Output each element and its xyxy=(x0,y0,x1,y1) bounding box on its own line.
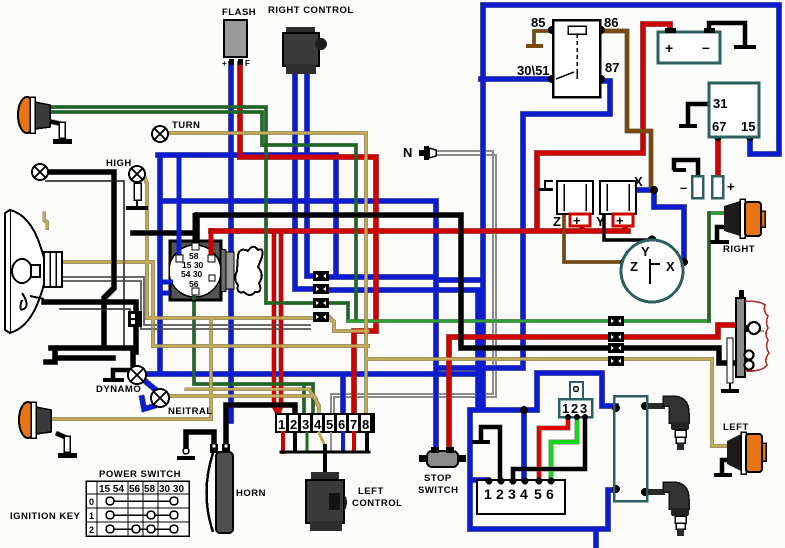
node regulator 15 xyxy=(746,133,754,141)
svg-text:2: 2 xyxy=(290,417,297,432)
svg-text:56: 56 xyxy=(129,484,141,495)
wire gray N line xyxy=(331,151,493,421)
wire blue horiz y201 xyxy=(160,199,436,204)
condenser Y xyxy=(596,181,636,229)
wire black main y215 xyxy=(197,215,737,363)
svg-text:85: 85 xyxy=(531,15,545,30)
svg-text:2: 2 xyxy=(496,486,504,502)
svg-text:N: N xyxy=(403,145,412,160)
left control switch xyxy=(306,472,402,531)
wire black ind1 xyxy=(46,172,114,348)
svg-text:3: 3 xyxy=(580,401,587,416)
horn xyxy=(177,444,266,533)
node N connector xyxy=(403,145,436,160)
wire red battery plus xyxy=(537,24,670,231)
node relay 86 xyxy=(597,26,605,34)
wire khaki turn line xyxy=(168,133,366,421)
node alternator X terminal xyxy=(680,258,688,266)
svg-text:15 54: 15 54 xyxy=(99,484,124,495)
wire green connector3 east xyxy=(329,303,348,321)
wire red stop switch xyxy=(447,337,452,451)
svg-text:8: 8 xyxy=(362,417,369,432)
svg-text:+: + xyxy=(616,213,624,228)
svg-text:SWITCH: SWITCH xyxy=(418,485,458,496)
svg-text:+: + xyxy=(665,40,673,56)
ignition switch xyxy=(160,157,263,300)
wire blue flash terminal xyxy=(229,64,234,421)
svg-text:7: 7 xyxy=(350,417,357,432)
svg-text:LEFT: LEFT xyxy=(358,486,384,497)
node X junction xyxy=(650,186,658,194)
svg-text:2: 2 xyxy=(571,401,578,416)
svg-text:Z: Z xyxy=(553,214,561,229)
wire black dynamo feed xyxy=(131,348,136,364)
wire black regulator31 ground xyxy=(688,104,709,124)
svg-text:3: 3 xyxy=(508,486,516,502)
wire green G1 lamp to connector3 xyxy=(48,107,313,303)
wire thin pair headlamp xyxy=(62,277,310,325)
ground relay85 xyxy=(526,44,543,48)
wire red y231 right to condensers xyxy=(537,229,628,234)
wire blue stub to pin6 xyxy=(341,374,346,420)
battery xyxy=(658,28,720,63)
wire khaki neutral second xyxy=(186,389,316,399)
indicator NEUTRAL xyxy=(151,389,213,417)
node relay 85 xyxy=(548,26,556,34)
connector pair 4 (khaki) xyxy=(313,312,329,322)
wire black horn left ground loop xyxy=(186,432,214,450)
svg-text:TURN: TURN xyxy=(172,120,200,131)
svg-text:HORN: HORN xyxy=(236,488,266,499)
wire black battery minus ground xyxy=(709,23,745,45)
spark plug 1 xyxy=(648,396,689,450)
wire khaki socket to H346 xyxy=(62,262,153,346)
wire red condenser Y plus xyxy=(623,213,628,231)
wire blue relay 87 to connector2 xyxy=(436,81,610,368)
wire khaki connector4 east xyxy=(329,317,368,331)
node coil frame bottom-left xyxy=(612,485,620,493)
rear connector 3 black xyxy=(608,343,624,353)
wire red flash F to x376 xyxy=(240,64,376,420)
wire khaki neutral to pin4 xyxy=(169,396,319,421)
wire black coil3 to 6pin3 xyxy=(513,418,585,479)
svg-text:86: 86 xyxy=(604,15,618,30)
ground regulator31 xyxy=(679,124,697,128)
wire black bundle H348 xyxy=(51,346,135,351)
headlamp assembly xyxy=(5,210,62,333)
svg-text:+: + xyxy=(727,179,735,194)
svg-text:RIGHT: RIGHT xyxy=(723,244,755,255)
wire brown relay85 ground xyxy=(534,31,552,44)
wire blue 6pin pin1 stub xyxy=(470,480,487,483)
ground condenser Z xyxy=(538,181,553,191)
hv coil frame xyxy=(614,396,647,501)
svg-text:1: 1 xyxy=(278,417,285,432)
svg-text:+: + xyxy=(222,59,227,68)
wire black after connector down xyxy=(134,326,139,352)
wire black bottom-left lamp ground xyxy=(58,434,67,453)
wire blue bottom loop to coil frame xyxy=(470,410,614,529)
wire khaki y359 east to tail xyxy=(366,359,727,446)
indicator HIGH with bulb and ground xyxy=(106,158,148,210)
wire green G2 lamp low xyxy=(48,112,356,321)
connector pair 2 (blue) xyxy=(313,284,329,294)
svg-text:87: 87 xyxy=(605,60,619,75)
connector 8pin under-stubs xyxy=(281,433,369,473)
svg-text:F: F xyxy=(245,59,250,68)
wire blue connector2 left to right control xyxy=(295,75,313,289)
svg-text:5: 5 xyxy=(326,417,333,432)
svg-text:RIGHT CONTROL: RIGHT CONTROL xyxy=(268,5,354,16)
svg-text:1: 1 xyxy=(562,401,569,416)
tail lamp assembly xyxy=(721,290,769,393)
wire black headlamp thick xyxy=(44,302,136,312)
svg-text:Y: Y xyxy=(641,244,650,259)
spark plug 2 xyxy=(648,482,689,536)
stop switch xyxy=(418,447,466,496)
svg-text:0: 0 xyxy=(89,497,94,507)
svg-text:30 30: 30 30 xyxy=(159,484,184,495)
svg-text:67: 67 xyxy=(712,119,726,134)
connector block 6pin xyxy=(477,478,565,515)
condenser Z xyxy=(553,181,593,229)
wire black y233 from left xyxy=(133,231,197,236)
alternator xyxy=(621,240,683,302)
wire khaki socket second to y346 xyxy=(153,345,368,348)
wire blue x524 down to 6pin pin4 xyxy=(522,410,527,479)
wire black dynamo ground xyxy=(113,370,128,377)
wire khaki bottom left lamp xyxy=(50,318,211,419)
wire blue dynamo line y374 xyxy=(146,372,481,377)
connector pair 1 (blue) xyxy=(313,271,329,281)
svg-text:5: 5 xyxy=(534,486,542,502)
svg-text:Y: Y xyxy=(596,214,605,229)
node relay 30/51 xyxy=(548,75,556,83)
svg-text:56: 56 xyxy=(189,279,199,289)
node coil frame top-right xyxy=(641,402,649,410)
wire red pair to pin1 xyxy=(274,231,278,421)
wire blue connector2 right to harness xyxy=(329,290,478,408)
svg-text:15: 15 xyxy=(741,119,755,134)
wire red condenser Z plus xyxy=(580,213,585,231)
wire red regulator 67 to fuse xyxy=(716,139,721,175)
wire green ignition 56 down xyxy=(194,296,307,421)
svg-text:4: 4 xyxy=(314,417,322,432)
svg-text:Z: Z xyxy=(630,259,638,274)
wire blue vert x160 ignition feed xyxy=(158,155,163,374)
svg-text:DYNAMO: DYNAMO xyxy=(96,384,141,395)
wire green long y321 to tail xyxy=(348,213,724,321)
ignition coil terminal block 123 xyxy=(559,382,592,420)
svg-text:X: X xyxy=(634,174,643,189)
svg-text:6: 6 xyxy=(338,417,345,432)
wire blue connector1 left to right control xyxy=(307,75,313,276)
svg-text:STOP: STOP xyxy=(424,473,452,484)
turn signal lamp bottom-left xyxy=(19,402,77,458)
svg-text:X: X xyxy=(666,259,675,274)
svg-text:+: + xyxy=(573,213,581,228)
turn signal lamp left-rear xyxy=(714,422,766,477)
svg-text:NEITRAL: NEITRAL xyxy=(168,406,213,417)
svg-text:6: 6 xyxy=(546,486,554,502)
svg-text:1: 1 xyxy=(89,511,94,521)
wire red main y231 xyxy=(211,229,537,234)
wire green right signal drop xyxy=(708,213,711,321)
power switch table xyxy=(10,469,189,536)
svg-text:2: 2 xyxy=(89,525,94,535)
svg-text:1: 1 xyxy=(484,486,492,502)
wire brown alternator Z xyxy=(564,215,624,262)
indicator TURN xyxy=(152,120,200,142)
wire blue bottom exit stub xyxy=(594,529,599,548)
wire black alternator Y xyxy=(604,214,652,240)
connector pair 3 (green) xyxy=(313,298,329,308)
ground 6pin2 xyxy=(472,440,490,444)
indicator lamp 1 (charge) xyxy=(32,164,48,180)
wire black 6pin2 ground xyxy=(481,427,500,479)
fuse plus xyxy=(712,176,735,198)
svg-text:IGNITION KEY: IGNITION KEY xyxy=(10,511,81,522)
node alternator Y terminal xyxy=(648,236,657,245)
wire blue neutral bottom hook xyxy=(142,398,154,409)
wire blue vert x336 from y155 xyxy=(334,155,339,274)
wire black top-left lamp ground xyxy=(48,121,62,140)
wire blue horiz y155 xyxy=(158,153,336,158)
node relay 87 xyxy=(597,75,605,83)
flasher unit FLASH xyxy=(222,7,256,68)
indicator DYNAMO xyxy=(96,366,146,395)
ground battery minus xyxy=(734,45,756,49)
wire blue connector1 right xyxy=(329,275,436,280)
node regulator 67 xyxy=(714,133,722,141)
wire brown relay86 to X xyxy=(601,31,651,188)
node coil frame top-left xyxy=(612,404,620,412)
regulator xyxy=(709,83,759,137)
wire blue neutral loop xyxy=(145,381,157,391)
wire red tail lamp line xyxy=(449,325,737,337)
svg-text:POWER SWITCH: POWER SWITCH xyxy=(99,469,181,480)
rear connector 1 green xyxy=(608,316,624,326)
svg-text:–: – xyxy=(680,180,687,195)
node alternator Z terminal xyxy=(620,258,628,266)
wire black horn right to pin2 xyxy=(226,405,295,446)
wire black left signal ground xyxy=(722,460,730,473)
svg-text:FLASH: FLASH xyxy=(222,7,256,18)
svg-text:54 30: 54 30 xyxy=(181,269,203,279)
wire black headlamp thin pair xyxy=(60,309,130,312)
right control switch xyxy=(268,5,354,74)
wire khaki high drop xyxy=(144,176,313,318)
rear connector 4 khaki xyxy=(608,356,624,366)
wire black bundle H358 xyxy=(55,356,113,361)
rear connector 2 red xyxy=(608,332,624,342)
svg-text:30\51: 30\51 xyxy=(517,63,550,78)
wire black fuse minus hook xyxy=(674,160,698,175)
wire blue jog y280 to B1 xyxy=(436,278,483,283)
svg-text:3: 3 xyxy=(302,417,309,432)
svg-text:31: 31 xyxy=(713,96,727,111)
wire black right signal ground xyxy=(717,227,724,240)
wire green pin3 second xyxy=(304,384,313,421)
wire khaki stray segment xyxy=(44,213,47,228)
turn signal lamp front-left xyxy=(18,97,72,144)
wire black ind1 gray return xyxy=(46,181,124,348)
wire blue vert x436 to stop switch xyxy=(434,201,439,451)
wire blue relay 30/51 xyxy=(481,77,551,82)
wire red coil1 to 6pin5 xyxy=(539,418,568,479)
svg-text:HIGH: HIGH xyxy=(106,158,132,169)
turn signal lamp right xyxy=(710,199,765,255)
relay xyxy=(517,15,619,97)
headlamp harness connector xyxy=(128,311,142,327)
wire black indicator3 stub xyxy=(46,348,55,362)
svg-text:CONTROL: CONTROL xyxy=(352,498,402,509)
wire blue battery X node xyxy=(632,190,684,262)
svg-text:–: – xyxy=(702,39,710,55)
wire green coil2 to 6pin6 xyxy=(551,418,577,479)
svg-text:58: 58 xyxy=(144,484,156,495)
svg-text:4: 4 xyxy=(520,486,528,502)
junction blue harness to 6pin pin4 xyxy=(520,406,528,414)
fuse minus xyxy=(673,168,703,198)
wire blue main loop B1 top/right xyxy=(483,5,779,410)
node coil frame bottom-right xyxy=(641,488,649,496)
connector block 8pin xyxy=(275,413,375,433)
